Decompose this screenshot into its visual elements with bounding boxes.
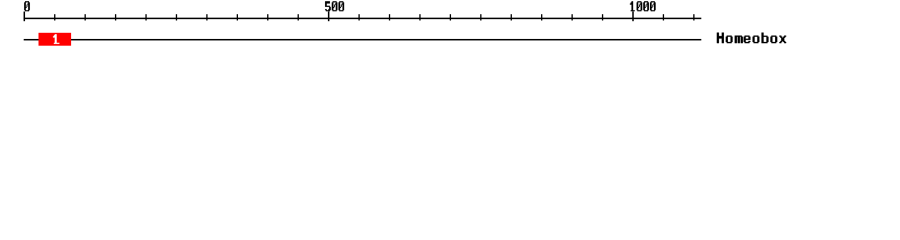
ruler major ticks at 0, 500, 1000 [24,12,634,22]
scale label 0 [24,1,30,11]
domain hit box (red) [39,33,72,46]
scale label 500 [325,1,344,11]
domain name label Homeobox [717,33,786,44]
background [0,0,900,58]
scale label 1000 [630,1,656,11]
ruler axis line [24,18,702,20]
ruler minor ticks every 50 aa [54,14,694,20]
hit number 1 [53,34,59,44]
sequence backbone line [24,39,702,41]
